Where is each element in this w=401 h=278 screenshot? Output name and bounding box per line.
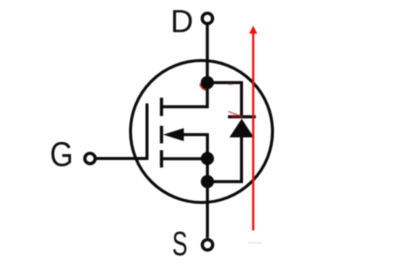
body diode D1: cathode bar (228, 115, 256, 118)
transistor body circle Q1 (131, 61, 273, 203)
label D (173, 10, 192, 32)
red remnant arc near drain node (200, 84, 206, 90)
label G (51, 142, 71, 167)
wire: diode anode down and to source node (207, 137, 241, 182)
red remnant diagonal near diode cathode bar (228, 111, 242, 116)
channel bar: body contact (160, 126, 163, 144)
wire: branch from drain node to body diode cathode (207, 83, 241, 116)
red remnant tick near diode branch corner (228, 83, 233, 85)
wire: source contact to source node (162, 157, 208, 160)
red remnant overlay on cathode bar (232, 116, 244, 119)
red current-path arrow line (252, 33, 254, 231)
wire: source lead from node down to terminal S (206, 158, 209, 238)
terminal pin G (open circle) (85, 153, 95, 163)
terminal pin S (open circle) (202, 240, 212, 250)
body diode D1: anode triangle (229, 119, 253, 138)
channel bar: drain contact (160, 98, 163, 116)
junction dot: source node lower (diode tap) (201, 175, 214, 188)
red arrow head (pointing up) (249, 26, 257, 34)
junction dot: source node upper (201, 152, 214, 165)
channel bar: source contact (160, 150, 163, 167)
wire: gate lead from terminal G to gate electrode (96, 157, 147, 160)
gate electrode vertical plate (146, 103, 149, 159)
terminal pin D (open circle) (202, 13, 212, 23)
label S (173, 232, 186, 256)
arrow head pointing to channel (N-channel body arrow) (163, 128, 184, 141)
faint watermark smudge (248, 242, 262, 244)
wire: drain lead from terminal D down to channel top corner (162, 25, 208, 107)
junction dot: drain node (201, 76, 214, 89)
wire: body (bulk) connection with arrow to channel (184, 135, 208, 159)
